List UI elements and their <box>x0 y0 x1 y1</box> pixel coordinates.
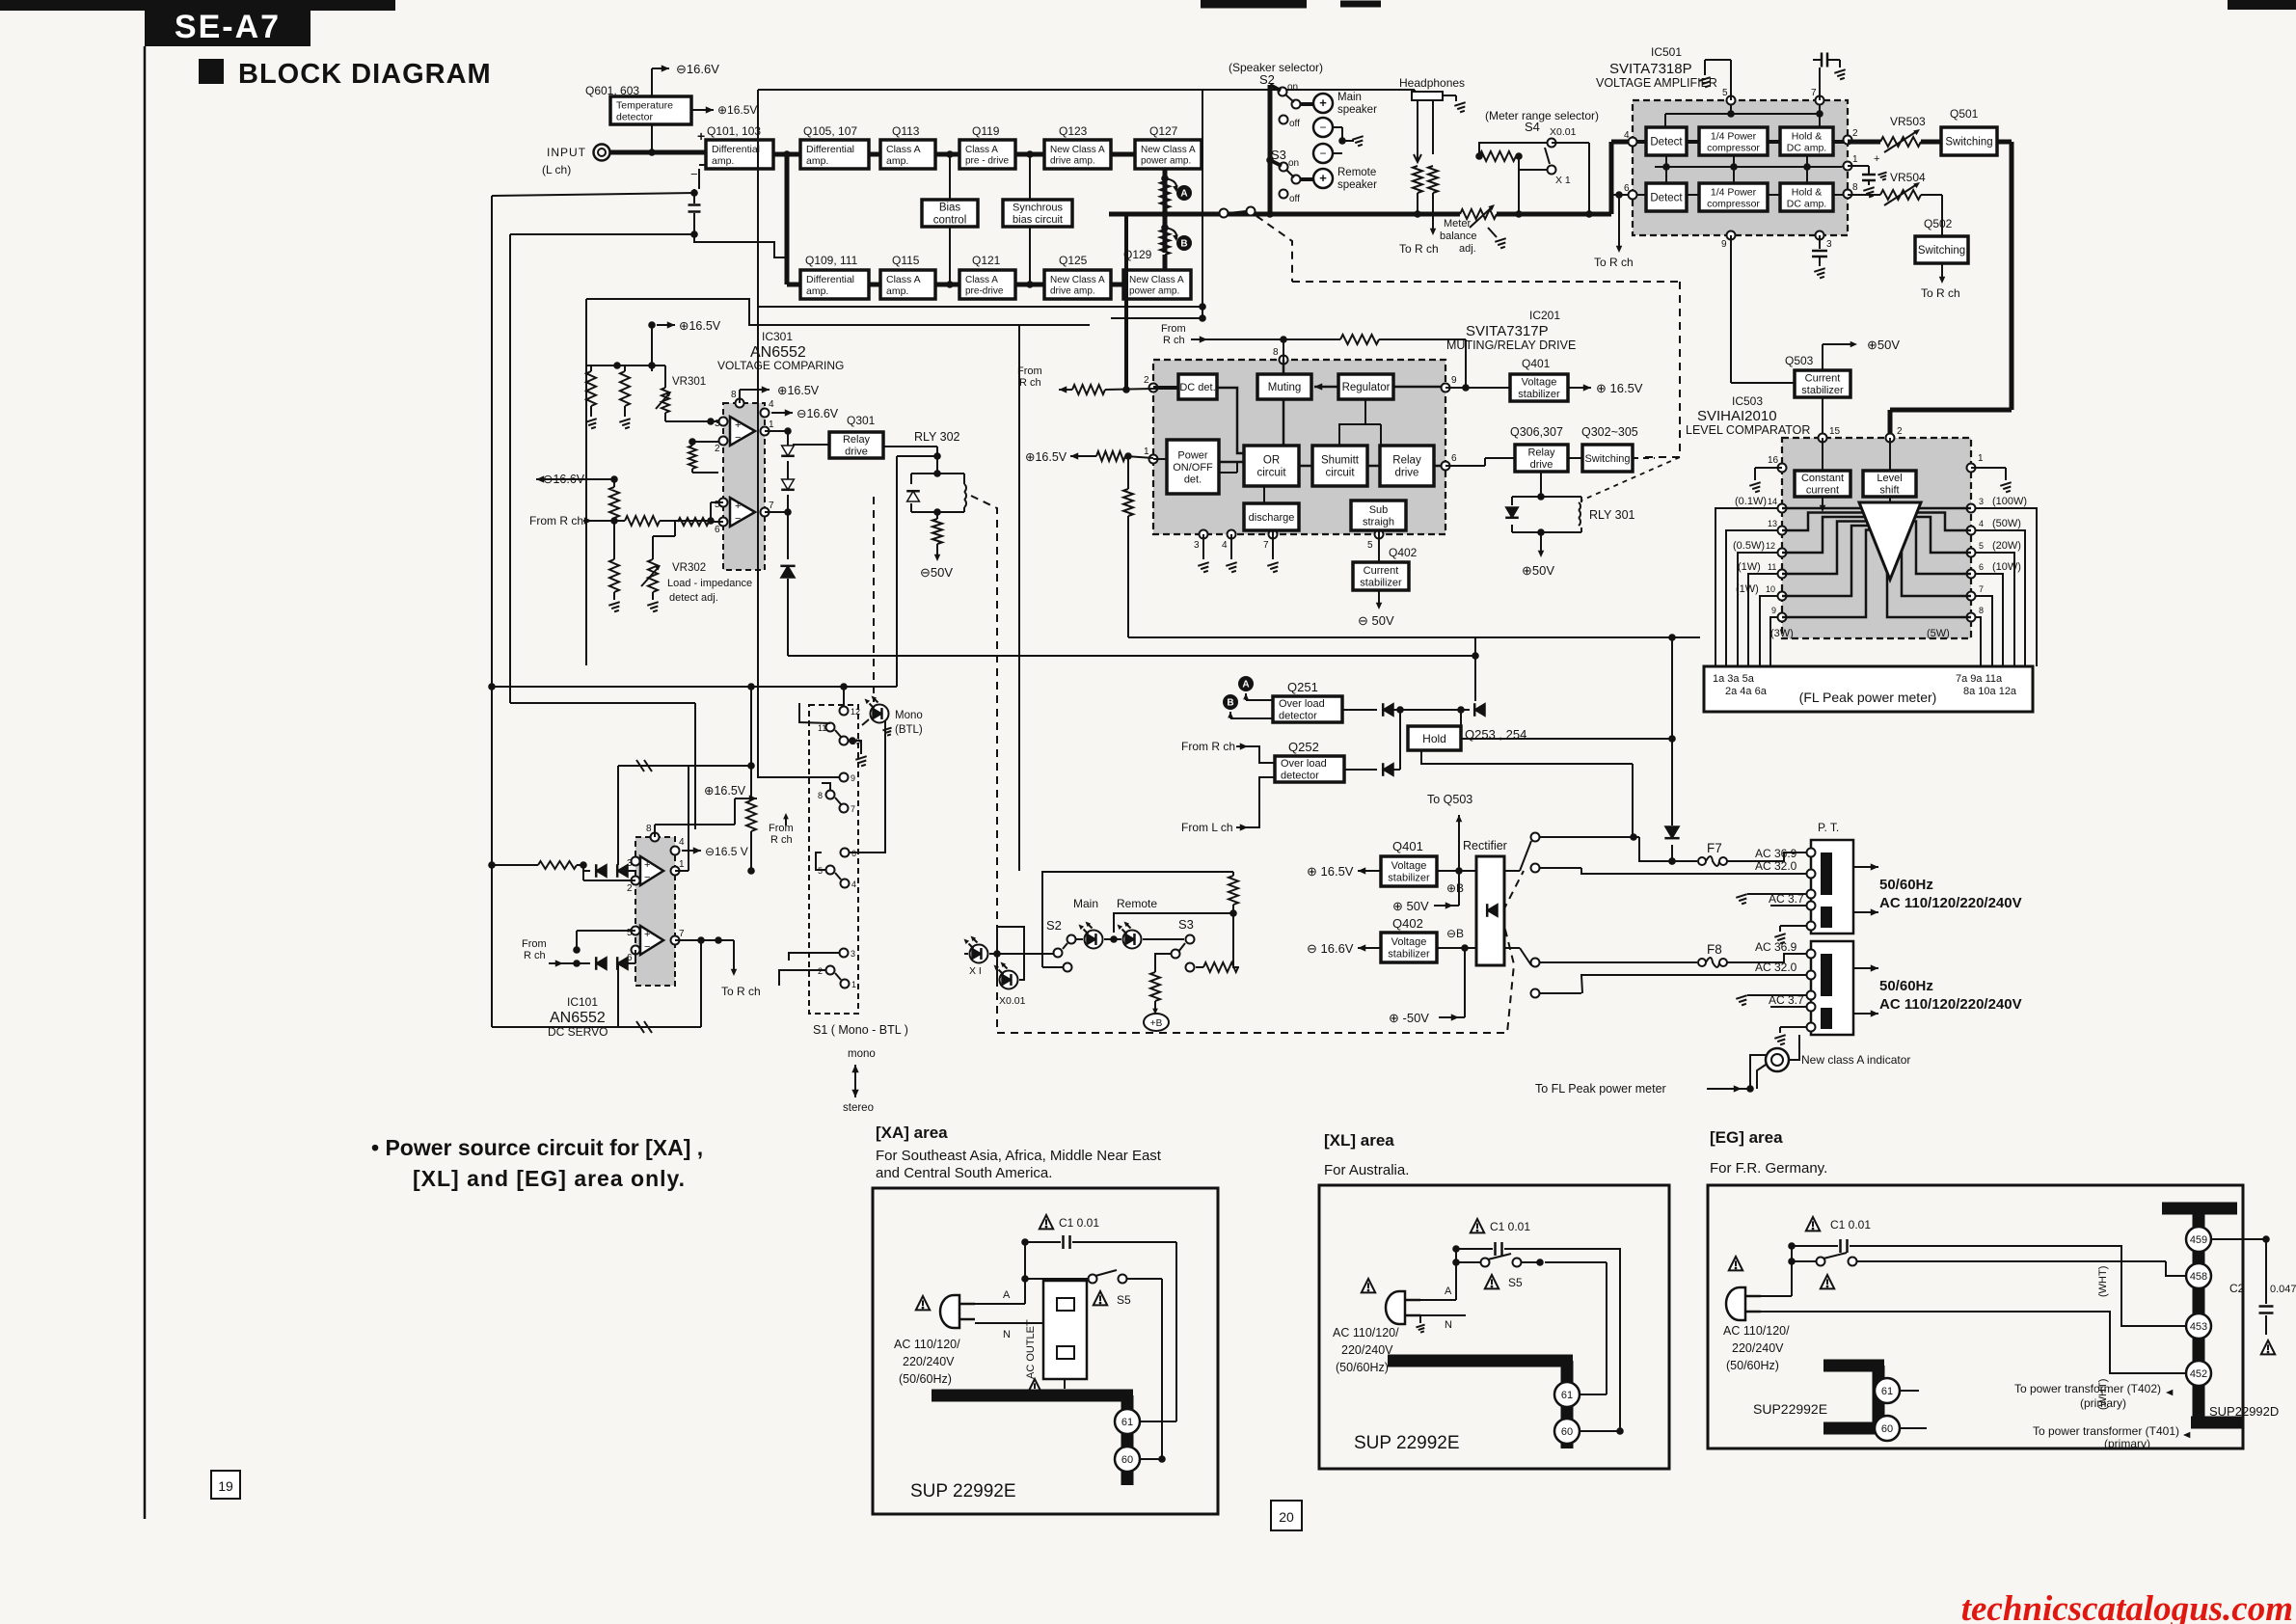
svg-text:AC 110/120/: AC 110/120/ <box>1333 1326 1399 1340</box>
svg-text:+: + <box>735 501 741 512</box>
svg-text:⊖16.5 V: ⊖16.5 V <box>705 845 748 858</box>
wire AC3.7 T2 <box>1736 993 1807 1007</box>
label Q402 <box>1389 546 1418 559</box>
svg-text:6: 6 <box>715 525 720 535</box>
svg-text:New class A indicator: New class A indicator <box>1801 1053 1910 1067</box>
label From R ch left <box>529 514 625 528</box>
remote LED <box>1117 897 1157 949</box>
VR302 pot <box>641 536 675 611</box>
svg-text:16: 16 <box>1768 455 1779 466</box>
power transformer T2 <box>1807 941 1879 1035</box>
svg-text:(10W): (10W) <box>1992 561 2021 573</box>
svg-text:off: off <box>1289 119 1300 129</box>
resistor divider left <box>585 362 665 428</box>
IC101 pin2 <box>627 877 640 895</box>
wire bias control taps <box>949 154 951 284</box>
svg-text:8: 8 <box>1273 347 1279 358</box>
input jack (L ch) <box>542 145 610 177</box>
wire Q401 16.5V <box>1568 381 1643 395</box>
svg-text:To FL Peak power meter: To FL Peak power meter <box>1535 1082 1666 1096</box>
IC301 pin1 out <box>761 420 775 436</box>
wire pin2 to switching <box>1848 140 1941 145</box>
svg-text:⊕16.5V: ⊕16.5V <box>717 103 757 117</box>
svg-text:C2: C2 <box>2229 1282 2245 1295</box>
svg-text:⊖ 16.6V: ⊖ 16.6V <box>1307 941 1354 956</box>
svg-text:7: 7 <box>679 929 685 939</box>
svg-text:4: 4 <box>679 837 685 848</box>
svg-text:N: N <box>1445 1319 1452 1331</box>
wire shumitt to relay drive <box>1367 465 1380 468</box>
wire left resistor into pins <box>492 861 587 869</box>
svg-text:R ch: R ch <box>770 834 793 846</box>
svg-text:(50/60Hz): (50/60Hz) <box>1336 1361 1389 1374</box>
svg-text:S3: S3 <box>1178 917 1194 932</box>
svg-text:3: 3 <box>1979 497 1984 506</box>
svg-text:AC OUTLET: AC OUTLET <box>1025 1319 1037 1379</box>
svg-text:+B: +B <box>1150 1018 1163 1029</box>
XL switch S5 <box>1452 1254 1544 1289</box>
diodes input a <box>583 864 635 878</box>
block diagram heading <box>199 59 492 90</box>
svg-text:Remote: Remote <box>1337 167 1376 178</box>
svg-text:stereo: stereo <box>843 1102 874 1114</box>
svg-text:SUP22992E: SUP22992E <box>1753 1401 1827 1417</box>
IC101 pin7 <box>671 929 686 945</box>
label Q115 <box>892 254 920 267</box>
svg-text:F7: F7 <box>1707 841 1722 855</box>
svg-text:9: 9 <box>1721 239 1727 250</box>
IC301 labels <box>717 330 844 372</box>
svg-text:8: 8 <box>731 390 737 400</box>
svg-text:Q251: Q251 <box>1287 680 1318 694</box>
class A pre-drive Q121 <box>959 270 1015 299</box>
IC201 pin1 <box>1144 447 1158 464</box>
svg-text:Q501: Q501 <box>1950 107 1979 121</box>
svg-text:3: 3 <box>851 949 855 959</box>
diode Q252 out <box>1344 710 1400 776</box>
mono BTL LED <box>862 696 923 737</box>
svg-text:5: 5 <box>715 500 720 510</box>
svg-text:From R ch: From R ch <box>529 514 583 528</box>
svg-text:7: 7 <box>769 501 774 511</box>
svg-text:(100W): (100W) <box>1992 496 2027 507</box>
svg-text:5: 5 <box>627 928 633 938</box>
wire minus input drop <box>690 165 706 189</box>
svg-text:circuit: circuit <box>1325 468 1355 479</box>
svg-text:Remote: Remote <box>1117 897 1157 910</box>
svg-text:Rectifier: Rectifier <box>1463 839 1507 853</box>
svg-text:Regulator: Regulator <box>1342 382 1391 393</box>
svg-text:Detect: Detect <box>1650 193 1683 204</box>
resistor from R ch <box>625 502 723 526</box>
hold and DC amp 2 <box>1780 183 1833 211</box>
svg-text:IC501: IC501 <box>1651 45 1682 59</box>
svg-text:Sub: Sub <box>1369 504 1389 516</box>
IC301 pin2 <box>715 437 728 455</box>
svg-text:Constant: Constant <box>1801 473 1844 484</box>
svg-text:To R ch: To R ch <box>1921 286 1960 300</box>
wire pin1 to power det <box>1153 458 1167 460</box>
wire constant current arrow <box>1820 497 1826 512</box>
svg-text:To R ch: To R ch <box>1399 242 1439 256</box>
svg-text:AC 32.0: AC 32.0 <box>1755 859 1797 873</box>
dashed vertical to RLY301 <box>1581 282 1680 501</box>
IC201 pin9 <box>1442 375 1458 392</box>
svg-text:Q127: Q127 <box>1149 124 1178 138</box>
svg-text:−: − <box>735 432 741 444</box>
dashed RLY302 linkage <box>971 496 997 1033</box>
EG terminal 453 <box>1885 1246 2211 1339</box>
svg-text:C1 0.01: C1 0.01 <box>1830 1218 1871 1232</box>
X1 LED <box>964 936 988 978</box>
hold and DC amp 1 <box>1780 127 1833 155</box>
svg-text:• Power source circuit for [XA: • Power source circuit for [XA] , <box>371 1135 703 1160</box>
wire main-remote <box>1104 935 1121 943</box>
synchronous bias circuit <box>1003 200 1072 227</box>
svg-text:12: 12 <box>851 707 860 717</box>
level shift box <box>1863 471 1916 497</box>
wire IC501 mid rail <box>1655 155 1844 183</box>
svg-text:10: 10 <box>1766 584 1775 594</box>
label Q301 <box>847 414 876 427</box>
svg-text:19: 19 <box>218 1478 233 1494</box>
speaker selector trunk S2/S3 <box>1266 85 1274 214</box>
IC101 pin8 <box>646 824 735 842</box>
svg-text:1a 3a 5a: 1a 3a 5a <box>1713 673 1755 685</box>
wire pin5 to Q402 <box>1378 534 1380 562</box>
EG thick bracket <box>1823 1366 1884 1428</box>
wire RLY302 resistor -50V <box>920 512 953 580</box>
svg-text:P. T.: P. T. <box>1818 821 1839 834</box>
XA AC outlet <box>1025 1281 1087 1393</box>
meter balance adj pot <box>1440 204 1506 255</box>
IC101 labels <box>548 995 608 1039</box>
regulator box <box>1338 374 1393 399</box>
new class A drive amp Q125 <box>1044 270 1111 299</box>
S1 pin2 <box>779 966 835 987</box>
wire DC det internals <box>1217 388 1244 453</box>
wire 1734 diode down <box>1664 735 1679 865</box>
svg-text:SUP22992D: SUP22992D <box>2209 1404 2279 1419</box>
svg-text:Current: Current <box>1805 373 1841 385</box>
wire output Q127 <box>1161 169 1169 212</box>
IC503 shaded body <box>1782 438 1971 638</box>
svg-text:+: + <box>644 859 650 871</box>
svg-text:6: 6 <box>1979 562 1984 572</box>
IC301 pin8 <box>731 384 820 408</box>
power transformer T1 <box>1807 821 1879 934</box>
IC501 shaded body <box>1633 100 1848 235</box>
svg-text:Over load: Over load <box>1281 758 1327 770</box>
svg-text:RLY 301: RLY 301 <box>1589 508 1635 522</box>
svg-text:(0.1W): (0.1W) <box>1735 496 1767 507</box>
IC501 pin4 <box>1624 130 1637 147</box>
svg-text:1: 1 <box>679 859 685 870</box>
label RLY302 <box>914 430 960 444</box>
wire row2 <box>787 281 1123 288</box>
svg-text:(20W): (20W) <box>1992 540 2021 552</box>
svg-text:VOLTAGE COMPARING: VOLTAGE COMPARING <box>717 359 844 372</box>
EG C1 capacitor <box>1788 1217 1885 1253</box>
svg-text:Load - impedance: Load - impedance <box>667 578 752 589</box>
svg-text:−: − <box>644 941 650 953</box>
wire hold right up <box>1461 637 1676 743</box>
svg-text:50/60Hz: 50/60Hz <box>1879 877 1933 893</box>
svg-text:5: 5 <box>1979 541 1984 551</box>
IC201 labels <box>1446 309 1576 352</box>
IC501 pin1 <box>1844 154 1859 171</box>
svg-text:drive: drive <box>845 447 868 458</box>
XL area heading <box>1324 1131 1409 1178</box>
svg-text:⊕16.5V: ⊕16.5V <box>679 319 721 333</box>
svg-text:det.: det. <box>1184 474 1202 485</box>
wire VR301 to pin3 <box>665 418 718 425</box>
svg-text:mono: mono <box>848 1048 876 1060</box>
svg-text:drive: drive <box>1395 468 1419 479</box>
wire left divider lower <box>609 479 619 525</box>
IC301 shaded strip <box>723 403 765 570</box>
svg-text:(0.5W): (0.5W) <box>1733 540 1765 552</box>
wire headphone feed <box>1414 90 1416 92</box>
XL AC label <box>1333 1315 1425 1374</box>
IC201 pin8 <box>1273 347 1288 365</box>
overload detector Q251 <box>1273 696 1342 722</box>
svg-text:compressor: compressor <box>1707 142 1760 153</box>
svg-text:[XA] area: [XA] area <box>876 1123 948 1142</box>
S1 dashed box <box>809 705 858 1014</box>
svg-text:Q503: Q503 <box>1785 354 1814 367</box>
label To Q503 <box>1427 793 1472 871</box>
svg-text:2: 2 <box>627 883 633 894</box>
S1 pin12 <box>840 687 861 717</box>
wire switching out dashed <box>1633 457 1655 459</box>
svg-text:New Class A: New Class A <box>1050 275 1105 285</box>
selector contacts upper <box>1504 833 1581 873</box>
svg-text:Synchrous: Synchrous <box>1013 203 1063 214</box>
EG sup22992d <box>2209 1404 2279 1419</box>
svg-text:4: 4 <box>1979 519 1984 528</box>
svg-text:Voltage: Voltage <box>1522 377 1557 389</box>
wire IC501 row2 <box>1636 194 1844 196</box>
RLY302 relay <box>906 474 966 516</box>
XL wires right <box>1466 1249 1620 1431</box>
S1 pin1 <box>835 973 856 989</box>
svg-text:discharge: discharge <box>1249 512 1295 524</box>
quarter power compressor 2 <box>1699 183 1768 211</box>
XA terminal 60 <box>1115 1447 1166 1472</box>
diode Q251 out <box>1342 703 1465 717</box>
XL sup number <box>1354 1433 1460 1453</box>
power on/off det box <box>1167 440 1219 494</box>
svg-text:Q121: Q121 <box>972 254 1001 267</box>
wire IC501 top rail <box>1665 104 1823 127</box>
svg-text:8: 8 <box>818 791 823 800</box>
EG wire A <box>1791 1246 1793 1296</box>
svg-text:Over load: Over load <box>1279 698 1325 710</box>
wire pin7 out <box>675 936 734 944</box>
wire Q402 16.6V out <box>1307 941 1381 956</box>
wire lamp right <box>1789 1035 1799 1060</box>
EG terminal 60 <box>1875 1416 1927 1441</box>
svg-text:1: 1 <box>1144 447 1149 457</box>
svg-text:3: 3 <box>1194 540 1200 551</box>
S1 pin9 <box>758 90 855 783</box>
svg-text:7: 7 <box>1811 88 1817 98</box>
svg-text:⊖50V: ⊖50V <box>920 565 953 580</box>
svg-text:Power: Power <box>1177 449 1208 461</box>
svg-text:Q402: Q402 <box>1392 916 1423 931</box>
svg-text:DC amp.: DC amp. <box>1787 198 1826 209</box>
svg-text:(WHT): (WHT) <box>2097 1266 2109 1297</box>
svg-text:⊖16.6V: ⊖16.6V <box>797 407 839 420</box>
wire Q402 right <box>1437 927 1476 952</box>
IC201 shaded body <box>1153 360 1445 534</box>
labels Q306 Q302 <box>1510 425 1638 439</box>
svg-text:2: 2 <box>1144 375 1149 386</box>
resistor pin2 branch <box>689 438 718 473</box>
svg-text:F8: F8 <box>1707 942 1722 957</box>
IC301 pin7 out <box>761 501 775 517</box>
svg-text:S4: S4 <box>1525 120 1540 134</box>
svg-text:on: on <box>1287 82 1298 93</box>
svg-text:IC101: IC101 <box>567 995 598 1009</box>
relay contacts on bus <box>1220 207 1256 218</box>
EG plug <box>1726 1257 1805 1320</box>
label Q253,254 <box>1465 727 1526 742</box>
svg-text:From: From <box>522 938 547 950</box>
wire -16.6V feed <box>648 68 656 156</box>
svg-text:To power transformer (T402): To power transformer (T402) <box>2014 1382 2161 1395</box>
svg-text:compressor: compressor <box>1707 198 1760 209</box>
label Q503 <box>1785 354 1814 367</box>
svg-text:IC201: IC201 <box>1529 309 1560 322</box>
svg-text:detector: detector <box>616 111 653 122</box>
svg-text:OR: OR <box>1263 455 1280 467</box>
voltage stabilizer Q401 <box>1381 856 1437 886</box>
RLY301 relay <box>1505 497 1634 536</box>
svg-text:control: control <box>933 215 967 227</box>
wire Q402 -50V <box>1358 590 1394 628</box>
svg-text:VOLTAGE AMPLIFIER: VOLTAGE AMPLIFIER <box>1596 76 1717 90</box>
wire pin7 gnd <box>1267 534 1278 572</box>
svg-text:To Q503: To Q503 <box>1427 793 1472 806</box>
switching Q502 <box>1915 236 1968 263</box>
svg-text:BLOCK DIAGRAM: BLOCK DIAGRAM <box>238 59 492 90</box>
FL meter text <box>1799 690 1937 705</box>
new class A power amp Q127 <box>1135 140 1202 169</box>
IC201 pin5 <box>1367 530 1384 552</box>
class A amp Q113 <box>880 140 935 169</box>
svg-text:X 1: X 1 <box>1555 175 1571 186</box>
svg-text:3: 3 <box>1826 239 1832 250</box>
EG WHT labels <box>2097 1266 2109 1410</box>
main output bus <box>1109 210 1589 218</box>
main LED <box>1073 897 1103 949</box>
label speaker selector <box>1229 61 1323 74</box>
wire bus to IC501 pin4 <box>1589 142 1628 214</box>
switch S2 off contact <box>1280 116 1301 130</box>
svg-text:+: + <box>1319 95 1327 110</box>
wire 1693 down <box>1632 764 1634 837</box>
EG right thick bar <box>2162 1203 2243 1428</box>
svg-text:INPUT: INPUT <box>547 146 586 159</box>
label Q401 <box>1522 357 1551 370</box>
svg-text:1: 1 <box>769 420 774 430</box>
label From R ch Q252 <box>1181 740 1275 763</box>
svg-text:8: 8 <box>1979 606 1984 615</box>
svg-text:60: 60 <box>1881 1423 1893 1435</box>
wire chain outer rect <box>758 90 1415 322</box>
label T1 output <box>1879 877 2022 911</box>
dashed S linkage horizontal <box>997 871 1524 1033</box>
rectifier label <box>1463 839 1507 853</box>
bias control <box>922 200 978 227</box>
IC501 pin6 <box>1624 183 1637 200</box>
wire AC3.7 T1 <box>1736 892 1807 906</box>
svg-text:61: 61 <box>1121 1417 1133 1428</box>
wire x779 vertical <box>746 687 756 875</box>
svg-text:⊕16.5V: ⊕16.5V <box>777 384 820 397</box>
resistor S2 loop <box>1229 872 1238 917</box>
op-amp IC101a <box>640 856 663 885</box>
svg-text:(5W): (5W) <box>1927 628 1950 639</box>
IC101 pin4 <box>671 837 748 858</box>
wire comparator out line <box>788 652 1479 660</box>
FL meter pin labels <box>1713 673 2017 697</box>
svg-text:+: + <box>1319 171 1327 185</box>
svg-text:stabilizer: stabilizer <box>1388 873 1430 884</box>
svg-text:New Class A: New Class A <box>1050 145 1105 155</box>
EG switch S5 <box>1788 1253 1885 1288</box>
svg-text:From: From <box>769 823 794 834</box>
wire pin9 to current stabilizer <box>1731 235 1795 383</box>
svg-text:Class A: Class A <box>965 275 998 285</box>
wire long left vertical 2 <box>509 234 511 703</box>
IC503 pin16 <box>1768 455 1787 473</box>
svg-text:Q119: Q119 <box>972 124 1000 138</box>
svg-text:Q252: Q252 <box>1288 740 1319 754</box>
VR503 <box>1880 115 1926 152</box>
svg-text:[XL] area: [XL] area <box>1324 1131 1394 1150</box>
svg-text:Q401: Q401 <box>1522 357 1551 370</box>
XA terminal 61 <box>1115 1409 1176 1434</box>
svg-text:Voltage: Voltage <box>1391 936 1427 948</box>
IC503 pin15 <box>1819 426 1841 443</box>
svg-text:SVIHAI2010: SVIHAI2010 <box>1697 408 1777 424</box>
svg-text:7: 7 <box>1979 584 1984 594</box>
XA plug <box>916 1289 1043 1340</box>
svg-text:AC 110/120/: AC 110/120/ <box>1723 1324 1790 1338</box>
label From R ch S1 <box>769 813 794 846</box>
wire pin5 link <box>573 931 635 954</box>
svg-text:15: 15 <box>1829 426 1841 437</box>
wire S2 loop rect <box>1042 872 1233 967</box>
wire synchronous taps <box>1029 154 1031 284</box>
svg-text:1/4 Power: 1/4 Power <box>1711 186 1757 198</box>
svg-text:X I: X I <box>969 965 982 977</box>
node B <box>1165 228 1192 251</box>
label Q129 <box>1123 248 1152 261</box>
svg-text:Differential: Differential <box>806 144 854 155</box>
EG terminal 459 <box>2186 1227 2270 1252</box>
sub straight box <box>1351 501 1406 530</box>
svg-text:Class A: Class A <box>886 274 921 285</box>
svg-text:power amp.: power amp. <box>1129 285 1179 296</box>
FL peak power meter box <box>1704 666 2033 712</box>
label Q127 <box>1149 124 1178 138</box>
IC503 pin labels left <box>1733 496 1794 639</box>
IC501 pin7 <box>1811 88 1824 105</box>
